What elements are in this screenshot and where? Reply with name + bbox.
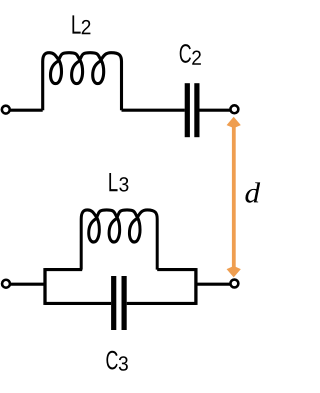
inductor L3 (81, 210, 157, 270)
wire (9, 109, 43, 112)
junction (left parallel node) (43, 268, 46, 305)
junction (right parallel node) (194, 268, 197, 305)
terminal node (bottom-right port) (230, 280, 238, 288)
terminal node (top-right port) (230, 105, 238, 113)
wire (45, 302, 111, 305)
wire (196, 283, 231, 286)
label d (245, 182, 260, 202)
label L3 (109, 173, 128, 192)
capacitor C3 (111, 276, 127, 330)
label C2 (180, 44, 201, 65)
label L2 (72, 15, 90, 34)
wire (9, 283, 45, 286)
capacitor C2 (185, 83, 200, 137)
wire (122, 109, 185, 112)
wire (199, 109, 230, 112)
wire (127, 302, 196, 305)
terminal node (top-left port) (2, 106, 10, 114)
label C3 (106, 351, 127, 371)
terminal node (bottom-left port) (2, 280, 10, 288)
inductor L2 (43, 53, 122, 110)
dimension arrow d (distance between ports) (227, 117, 241, 278)
wire (157, 268, 196, 271)
wire (45, 268, 82, 271)
